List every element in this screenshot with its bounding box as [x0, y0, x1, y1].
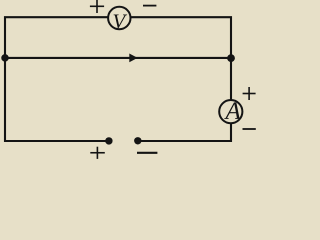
ammeter A1 circle	[219, 100, 242, 123]
current arrow	[129, 54, 137, 63]
node battery terminal left	[105, 137, 112, 144]
node left junction	[1, 54, 9, 62]
ammeter A1 label	[224, 102, 241, 118]
ammeter plus label	[243, 87, 256, 100]
voltmeter plus label	[90, 0, 104, 13]
node right junction	[227, 54, 235, 62]
node battery terminal right	[134, 137, 141, 144]
ammeter minus label	[243, 128, 256, 130]
battery minus label	[137, 152, 157, 154]
voltmeter V1 label	[114, 15, 128, 29]
wire outer loop (left, top, right, bottom with battery gap)	[5, 17, 231, 141]
wire middle horizontal	[5, 57, 231, 59]
voltmeter minus label	[143, 5, 156, 7]
voltmeter V1 circle	[108, 7, 130, 29]
battery plus label	[90, 147, 105, 159]
